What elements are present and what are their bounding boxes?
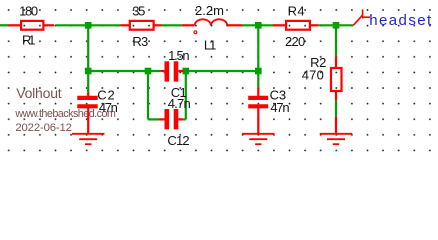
svg-text:470: 470 [302, 67, 324, 82]
svg-text:4.7n: 4.7n [168, 96, 191, 111]
svg-text:1.5n: 1.5n [168, 48, 190, 63]
svg-text:47n: 47n [270, 100, 289, 115]
svg-text:C12: C12 [167, 133, 189, 148]
svg-text:R4: R4 [288, 4, 305, 19]
svg-text:Volhout: Volhout [16, 85, 62, 101]
svg-text:180: 180 [19, 4, 38, 19]
svg-text:2.2m: 2.2m [195, 3, 224, 18]
svg-text:headset: headset [369, 12, 432, 29]
svg-text:220: 220 [285, 34, 305, 49]
svg-text:47n: 47n [99, 100, 118, 115]
svg-text:R1: R1 [22, 33, 36, 48]
svg-text:L1: L1 [204, 38, 217, 53]
svg-text:35: 35 [132, 4, 145, 19]
svg-text:R3: R3 [132, 34, 148, 49]
svg-text:2022-06-12: 2022-06-12 [15, 122, 72, 134]
